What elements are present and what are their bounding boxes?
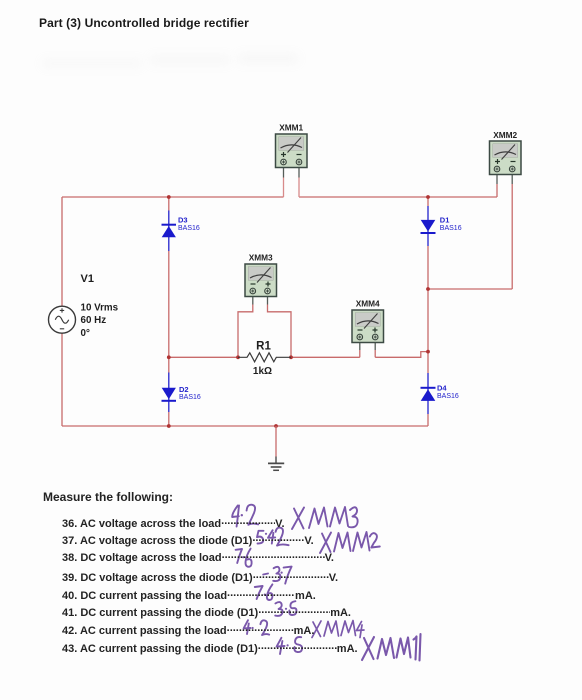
svg-text:D3: D3 [178, 216, 188, 225]
wire XMM3 left lead [238, 297, 253, 358]
wire D3 branch upper [168, 197, 170, 251]
wire XMM1 left lead [283, 168, 285, 198]
svg-text:0°: 0° [81, 328, 90, 339]
handwritten XMM1 (line 43) [362, 634, 421, 661]
wire D3-D2 branch middle [168, 251, 170, 373]
diode D1 [421, 220, 436, 233]
handwriting group [232, 505, 420, 661]
svg-text:R1: R1 [256, 341, 271, 353]
wire bottom rail [62, 425, 428, 427]
svg-text:BAS16: BAS16 [178, 225, 200, 232]
wire D2 leads [168, 373, 170, 427]
wire XMM4 right lead [374, 343, 376, 358]
svg-text:10 Vrms: 10 Vrms [81, 303, 119, 314]
wire top rail left segment [62, 196, 284, 198]
wire XMM2 left lead [496, 175, 498, 198]
question line 38 [62, 549, 334, 564]
wire R1 row left [169, 356, 238, 358]
svg-text:D1: D1 [440, 215, 450, 224]
junction node ground [274, 424, 278, 428]
handwritten XMM2 (line 37) [320, 532, 380, 553]
junction node top-left (D3 anode to rail) [167, 195, 171, 199]
junction node R1 left [236, 355, 240, 359]
handwritten answer 7.6 (line 38) [236, 549, 252, 567]
question line 40 [62, 587, 316, 602]
resistor R1 [238, 353, 291, 362]
wire D1 branch upper [427, 197, 429, 246]
svg-text:60 Hz: 60 Hz [81, 315, 107, 326]
wire XMM2 right lead [511, 175, 513, 290]
diode D3 [162, 225, 177, 238]
svg-text:1kΩ: 1kΩ [253, 366, 272, 377]
svg-text:BAS16: BAS16 [179, 394, 201, 401]
measure heading [43, 490, 173, 504]
question line 42 [62, 622, 314, 637]
junction node D1-D4 / XMM2 [426, 287, 430, 291]
wire D1-D4 branch middle [427, 246, 429, 373]
handwritten XMM4 (line 42) [312, 621, 364, 638]
handwritten answer 4.8 (line 43) [277, 637, 302, 654]
handwritten answer 5.42 (line 37) [257, 528, 289, 546]
svg-text:D4: D4 [437, 383, 447, 392]
multimeter XMM1 [276, 134, 308, 168]
multimeter XMM3 [245, 264, 277, 297]
svg-text:BAS16: BAS16 [437, 393, 459, 400]
svg-text:BAS16: BAS16 [440, 225, 462, 232]
wire XMM1 right lead [298, 168, 300, 198]
wire D4 leads [427, 373, 429, 426]
diode D2 [162, 388, 177, 401]
junction node D2 bottom rail [167, 424, 171, 428]
wire XMM4 to right branch jog [375, 352, 428, 358]
question line 37 [62, 532, 314, 547]
question line 41 [62, 604, 351, 619]
wire left branch upper (V1 to top rail) [61, 197, 63, 306]
ground [268, 426, 284, 470]
handwritten answer 7.6 (line 40) [255, 584, 273, 600]
title [39, 16, 249, 30]
multimeter XMM4 [352, 310, 384, 343]
svg-text:XMM2: XMM2 [493, 130, 517, 140]
wire top rail right segment [299, 196, 497, 198]
svg-text:D2: D2 [179, 385, 189, 394]
handwritten X MM3 (line 36) [292, 507, 358, 529]
question line 43 [62, 640, 358, 655]
svg-text:V1: V1 [81, 273, 94, 285]
V1 value labels [81, 303, 119, 339]
question line 39 [62, 569, 338, 584]
junction node top-right (D1 to rail) [426, 195, 430, 199]
question line 36 [62, 515, 285, 530]
handwritten answer 3.8 (line 41) [275, 601, 296, 616]
svg-text:XMM3: XMM3 [249, 253, 273, 263]
handwritten answer -3.7 (line 39) [263, 567, 291, 584]
AC source V1 [49, 306, 76, 333]
wire XMM2 to D1-D4 node [428, 288, 512, 290]
wire R1 row right (to XMM4) [291, 356, 360, 358]
junction node R1 right [289, 355, 293, 359]
svg-text:XMM4: XMM4 [356, 299, 380, 309]
svg-text:XMM1: XMM1 [279, 123, 303, 133]
wire left branch lower (V1 to bottom rail) [61, 333, 63, 426]
diode D4 [421, 388, 436, 401]
handwritten answer 4.2 (line 36) [232, 505, 258, 527]
junction node right load row [426, 350, 430, 354]
wire XMM3 right lead [268, 297, 292, 358]
wire XMM4 left lead [359, 343, 361, 358]
multimeter XMM2 [490, 141, 522, 175]
handwritten answer 4.2 (line 42) [244, 620, 270, 635]
junction node left load row [167, 355, 171, 359]
